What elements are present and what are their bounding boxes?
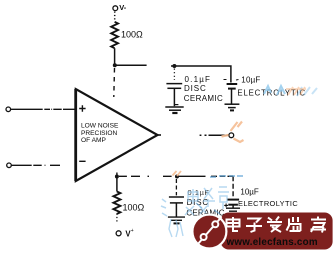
ground C3 [168,217,185,223]
watermark blue characters bottom [161,187,229,216]
svg-text:DISC: DISC [184,84,207,93]
wire input 2 [11,164,60,166]
svg-text:CERAMIC: CERAMIC [184,94,223,103]
wire input 1 [11,108,75,110]
watermark logo circle [192,215,226,249]
junction B [172,64,176,68]
wire R1 to junction A [114,48,116,65]
wire bottom rail dash-dot [119,175,172,177]
wire bottom rail solid [179,175,233,177]
watermark chinese characters 电子发烧友 (pseudo glyphs) [227,217,327,233]
watermark red box www.elecfans.com [221,213,333,250]
capacitor C3 [169,197,184,217]
svg-text:V-: V- [119,3,127,12]
ground C1 [165,107,183,113]
terminal V- [113,6,118,11]
junction C [115,175,119,179]
wire rail elbow down to C4 [232,176,234,197]
ground C4 [226,208,240,214]
svg-text:0.1µF: 0.1µF [185,75,212,84]
svg-text:100Ω: 100Ω [123,203,145,213]
wire top rail segment 2 with elbow down to C2 [171,66,231,83]
svg-text:OF AMP: OF AMP [81,137,107,144]
svg-text:ELECTROLYTIC: ELECTROLYTIC [238,199,298,208]
terminal V+ [116,231,121,236]
svg-text:100Ω: 100Ω [121,30,143,40]
junction A [113,63,117,67]
svg-text:+: + [131,228,134,234]
terminal output [229,133,234,138]
resistor R2 [113,192,120,214]
watermark orange tint over YTIC [286,87,306,95]
capacitor C2 [227,84,238,89]
terminal input 2 [7,163,12,168]
wire R2 to terminal (dotted) [116,214,118,223]
capacitor C4 [227,200,239,205]
capacitor C1 [166,84,182,107]
op-amp + input marker [79,105,85,111]
ground C2 [225,104,240,110]
watermark logo diagonal and nodes [198,217,222,245]
svg-text:LOW NOISE: LOW NOISE [81,123,119,130]
resistor R1 [111,22,118,48]
svg-text:10µF: 10µF [241,75,260,84]
op-amp - input marker [79,160,85,162]
capacitor C2 polarity marks [224,79,239,82]
wire junction C to R2 [116,177,118,192]
wire output (dash-dot) [200,134,229,136]
watermark blue blobs over ELECTROLYTIC top [264,86,317,96]
wire junction C stub up [116,173,118,177]
terminal input 1 [6,107,11,112]
capacitor C4 polarity + [224,204,228,208]
wire junction B to C1 (dotted) [173,69,175,81]
wire top rail segment 1 [115,64,147,66]
svg-text:10µF: 10µF [240,187,259,196]
svg-text:www.elecfans.com: www.elecfans.com [226,237,318,248]
junction D [175,175,179,179]
wire junction D to C3 (dashed) [175,179,177,195]
wire V- terminal to R1 (dotted) [114,12,116,21]
watermark orange strokes near output [173,122,244,177]
svg-text:PRECISION: PRECISION [81,130,118,137]
wire V- feed to op-amp (dashed) [113,68,116,97]
op-amp U1 [76,89,158,181]
